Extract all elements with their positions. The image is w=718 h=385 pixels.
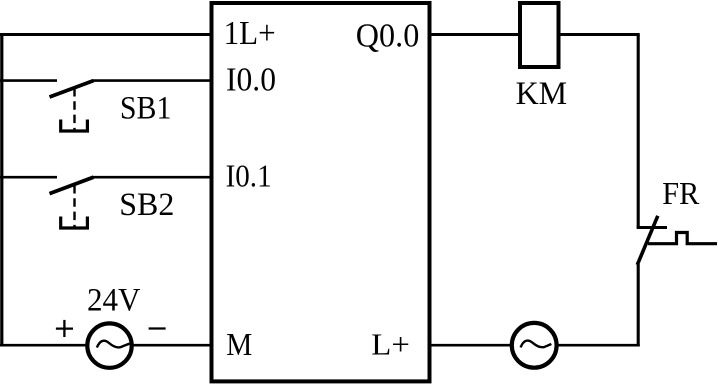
svg-text:SB2: SB2 [119,187,174,223]
wire: right rail lower segment [637,264,640,347]
PLC box U1 [212,3,430,381]
pushbutton SB2 cap bracket [61,217,88,229]
wire: row I0.0 from SB1 to PLC [93,79,214,82]
AC load lamp circle [512,323,557,368]
pushbutton SB2 dashed link [73,185,75,229]
pushbutton SB2 lever [50,177,94,193]
svg-text:1L+: 1L+ [224,15,276,52]
wire: row I0.1 from SB2 to PLC [93,176,214,179]
svg-text:L+: L+ [371,326,410,361]
wire: KM coil to right rail [559,33,640,36]
pushbutton SB1 cap bracket [61,120,88,132]
wire: Q0.0 to KM coil [428,33,521,36]
minus sign of 24V source [149,327,166,329]
svg-text:SB1: SB1 [120,91,171,127]
AC source G1 sine symbol [97,341,130,348]
wire: row I0.1 left stub [0,176,57,179]
svg-text:M: M [226,326,252,362]
FR thermal element symbol [648,233,717,244]
FR contact lever [637,216,658,265]
wire: right rail upper segment [637,35,640,229]
svg-text:24V: 24V [87,283,141,319]
wire: row 1L+ from rail to PLC [0,33,214,36]
svg-text:I0.1: I0.1 [226,158,272,194]
FR contact fixed tick [637,226,667,229]
plus sign of 24V source [56,327,73,329]
wire: bottom row from PLC (L+) to right rail [428,344,640,347]
contactor coil KM [520,3,559,67]
AC source G1 circle (24V) [87,323,131,367]
svg-text:I0.0: I0.0 [226,62,276,99]
wire: bottom row from rail to PLC (M) [0,344,214,347]
wire: row I0.0 left stub [0,79,57,82]
svg-text:KM: KM [516,76,568,112]
svg-text:Q0.0: Q0.0 [356,18,420,55]
wire: left vertical rail [0,35,3,346]
svg-text:FR: FR [662,175,700,211]
pushbutton SB1 lever [50,81,94,97]
AC load sine symbol [521,341,552,348]
pushbutton SB1 dashed link [73,88,75,132]
